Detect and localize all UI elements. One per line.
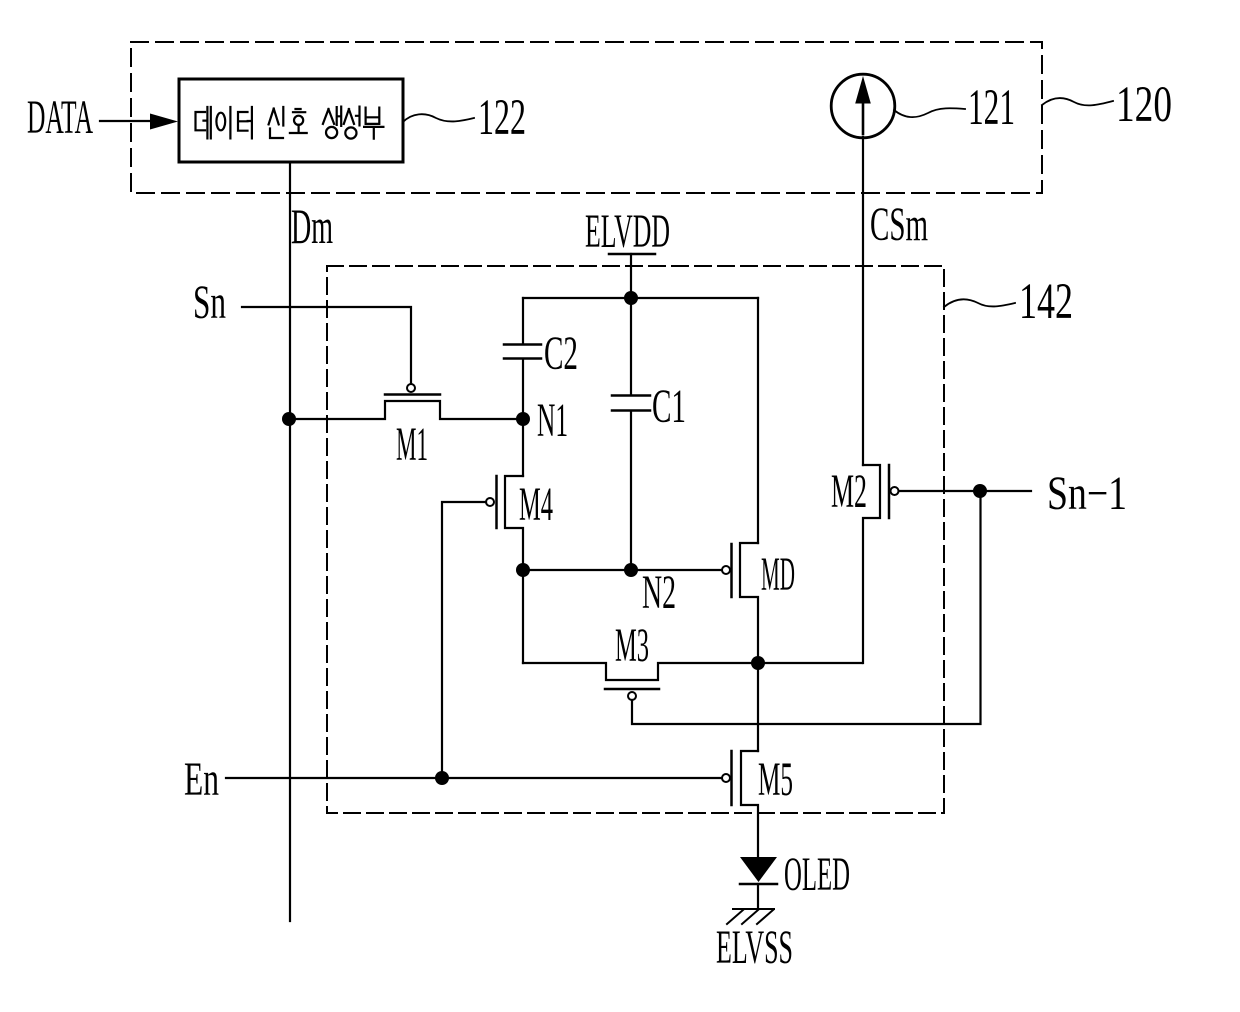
capacitor C1 top wire <box>630 298 632 395</box>
glyph 신 <box>269 107 284 138</box>
svg-text:N2: N2 <box>642 566 676 619</box>
svg-text:Dm: Dm <box>291 198 333 254</box>
node dot C1/N2 <box>624 563 638 577</box>
svg-text:N1: N1 <box>537 394 568 447</box>
arrowhead into block 122 <box>150 114 178 130</box>
wire Dm vertical <box>289 162 291 921</box>
svg-text:M5: M5 <box>758 753 793 806</box>
transistor MD gate bar <box>730 544 733 597</box>
transistor M1 channel and source/drain wire <box>289 401 523 419</box>
reference squiggle to 120 <box>1042 98 1113 105</box>
node N1 dot <box>516 412 530 426</box>
wire N2 horizontal <box>523 569 722 571</box>
reference squiggle to 142 <box>944 299 1015 307</box>
wire: DATA input line <box>100 120 152 122</box>
glyph 이 <box>216 113 225 131</box>
transistor M1 gate bubble <box>407 384 415 392</box>
wire top rail <box>523 297 758 299</box>
svg-text:Sn: Sn <box>193 276 226 329</box>
inner dashed box 142 <box>327 266 944 813</box>
ground ELVSS symbol <box>727 909 774 924</box>
reference squiggle to 122 <box>403 114 474 122</box>
svg-text:DATA: DATA <box>27 91 93 144</box>
glyph 성 <box>344 107 360 126</box>
glyph 호 <box>290 109 307 133</box>
current source U121 circle <box>831 74 895 138</box>
block 122: data signal generator box <box>179 79 403 162</box>
reference squiggle to 121 <box>894 108 965 117</box>
ELVDD terminal bar <box>609 253 655 256</box>
transistor M3 channel <box>523 663 862 680</box>
svg-text:122: 122 <box>478 90 526 146</box>
transistor M2 drain jog <box>863 465 880 663</box>
transistor M5 gate bubble <box>722 774 730 782</box>
transistor M2 gate bar <box>888 465 891 518</box>
transistor M5 drain wire <box>757 663 759 751</box>
svg-text:121: 121 <box>968 80 1015 136</box>
node N2 dot <box>516 563 530 577</box>
transistor M3 gate bubble <box>628 692 636 700</box>
Korean text 데이터 신호 생성부 (drawn as strokes) <box>196 107 384 139</box>
svg-text:ELVSS: ELVSS <box>716 921 793 974</box>
wire ELVDD drop <box>630 254 632 298</box>
transistor M1 gate bar <box>385 393 440 396</box>
transistor MD drain wire from rail <box>757 298 759 543</box>
capacitor C1 bottom wire <box>630 411 632 570</box>
transistor MD channel <box>740 543 758 663</box>
svg-text:142: 142 <box>1019 274 1073 330</box>
svg-text:En: En <box>184 753 219 806</box>
svg-text:OLED: OLED <box>784 848 850 901</box>
wire M3 gate to Sn-1 <box>632 491 981 724</box>
transistor M4 channel <box>505 476 523 563</box>
wire N2 to M3 <box>522 570 524 663</box>
capacitor C2 top wire <box>522 298 524 344</box>
wire En horizontal <box>226 777 722 779</box>
svg-text:Sn−1: Sn−1 <box>1047 467 1127 520</box>
node dot ELVDD junction <box>624 291 638 305</box>
glyph 생 <box>323 107 341 126</box>
svg-text:ELVDD: ELVDD <box>585 205 670 258</box>
node dot on Dm <box>282 412 296 426</box>
svg-text:MD: MD <box>761 548 795 601</box>
svg-text:C2: C2 <box>544 327 578 380</box>
wire OLED to ground <box>757 884 759 909</box>
svg-text:C1: C1 <box>652 380 686 433</box>
svg-text:120: 120 <box>1116 77 1172 133</box>
capacitor C1 plates <box>612 394 650 397</box>
svg-text:M2: M2 <box>831 465 867 518</box>
svg-text:CSm: CSm <box>870 198 928 251</box>
wire M4 gate to En <box>442 502 486 771</box>
glyph 데 <box>196 107 211 138</box>
glyph 부 <box>364 108 383 139</box>
node dot Sn-1 <box>973 484 987 498</box>
transistor M5 gate bar <box>730 751 733 805</box>
transistor M4 drain wire from N1 <box>522 419 524 476</box>
svg-text:M1: M1 <box>396 418 428 471</box>
outer dashed box 120 <box>131 42 1042 193</box>
diode OLED cathode bar <box>740 883 777 886</box>
transistor M2 gate bubble <box>891 487 899 495</box>
capacitor C2 plates <box>504 343 541 346</box>
current source arrowhead <box>855 76 871 104</box>
svg-text:M4: M4 <box>519 478 553 531</box>
glyph 터 <box>238 107 252 138</box>
transistor M5 channel <box>741 751 758 857</box>
node dot MD/M3/M5 junction <box>751 656 765 670</box>
node dot En/M4 <box>435 771 449 785</box>
diode OLED triangle <box>740 857 777 882</box>
wire CSm vertical <box>862 137 864 465</box>
wire Sn horizontal <box>242 307 411 384</box>
current source arrow shaft <box>862 98 865 134</box>
transistor M4 gate bar <box>495 476 498 528</box>
svg-text:M3: M3 <box>615 619 649 672</box>
capacitor C2 bottom wire <box>522 359 524 419</box>
transistor M4 gate bubble <box>486 498 494 506</box>
wire M2 gate to Sn-1 <box>899 490 1031 492</box>
transistor M3 gate bar <box>605 688 659 691</box>
transistor MD gate bubble <box>722 566 730 574</box>
